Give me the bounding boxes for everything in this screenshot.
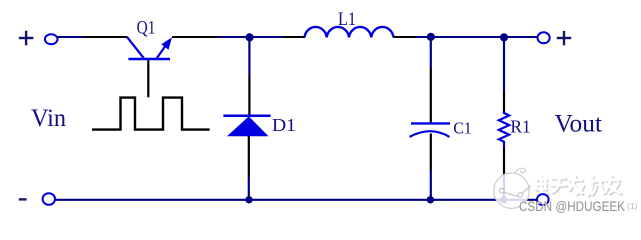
- wire R1 branch top navy: [503, 39, 505, 92]
- junction dot bottom diode: [245, 196, 252, 203]
- diode D1: [223, 116, 270, 137]
- resistor R1: [499, 112, 509, 149]
- bottom curved plate: [410, 131, 450, 137]
- anode triangle: [227, 116, 269, 136]
- wire switch node to inductor navy segment: [252, 36, 284, 38]
- terminal circle top-left: [45, 34, 58, 44]
- collector slant: [127, 37, 144, 58]
- bottom rail wire: [55, 199, 538, 201]
- wire C1 bottom navy: [430, 170, 432, 199]
- svg-text:(1): (1): [627, 201, 638, 211]
- terminal circle bottom-left: [43, 193, 55, 205]
- wire Q1 to switch node navy segment: [217, 36, 246, 38]
- terminal circle bottom-right: [537, 194, 549, 205]
- wire R1 branch black: [503, 91, 505, 113]
- junction dot C1 top: [427, 33, 435, 41]
- wire diode to bottom black: [248, 136, 250, 178]
- wire R1 bottom black: [503, 148, 505, 177]
- wire diode to bottom navy: [248, 177, 250, 199]
- svg-text:CSDN @HDUGEEK: CSDN @HDUGEEK: [519, 199, 625, 214]
- junction dot R1 top: [500, 33, 508, 41]
- top plate: [411, 122, 450, 124]
- watermark chinese text 电子发烧友: [535, 176, 621, 196]
- cathode bar: [223, 114, 270, 117]
- watermark logo circle: [494, 168, 531, 208]
- wire C1 branch top navy: [430, 39, 432, 69]
- wire inductor to right black segment: [394, 36, 417, 38]
- junction dot bottom C1: [427, 196, 434, 203]
- minus sign left input: [19, 198, 27, 200]
- svg-text:L1: L1: [338, 9, 356, 30]
- plus sign right output: [557, 31, 571, 45]
- wire top-right navy segment: [416, 36, 538, 38]
- base bar: [128, 58, 170, 61]
- base lead wire: [147, 60, 149, 97]
- svg-text:R1: R1: [510, 117, 530, 137]
- terminal circle top-right: [538, 32, 550, 43]
- junction dot switch node: [246, 33, 254, 41]
- wire R1 bottom navy: [503, 176, 505, 200]
- junction dot bottom R1: [500, 196, 507, 203]
- wire switch node to inductor black segment: [283, 36, 305, 38]
- svg-text:C1: C1: [453, 118, 471, 137]
- wire switch node down black: [248, 77, 250, 115]
- svg-text:Vin: Vin: [31, 103, 66, 132]
- svg-text:Vout: Vout: [555, 111, 603, 138]
- emitter arrowhead: [161, 37, 172, 49]
- wire switch node down navy: [248, 39, 250, 78]
- pulse waveform source: [92, 98, 210, 130]
- inductor L1: [305, 27, 394, 37]
- transistor Q1: [127, 37, 172, 59]
- svg-text:D1: D1: [272, 115, 296, 135]
- plus sign left input: [19, 31, 34, 46]
- emitter slant: [157, 45, 167, 59]
- wire Q1 to switch node black segment: [172, 36, 218, 38]
- wire top-left navy segment: [58, 36, 84, 38]
- wire C1 bottom black: [430, 134, 432, 171]
- wire C1 branch black: [430, 68, 432, 123]
- capacitor C1: [410, 123, 451, 136]
- wire top-left black segment: [84, 36, 128, 38]
- svg-text:Q1: Q1: [137, 17, 156, 38]
